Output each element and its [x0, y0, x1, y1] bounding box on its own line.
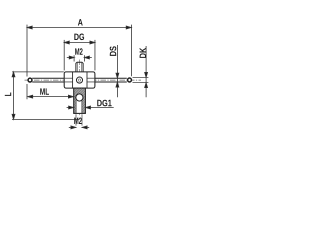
dimension A: line — [27, 26, 131, 29]
dimension L: line — [12, 72, 15, 119]
vertical centerline — [78, 60, 80, 117]
label A — [78, 19, 83, 25]
dimension DG: extension lines — [64, 40, 95, 71]
dimension ML: line — [28, 95, 74, 98]
label M2 bottom — [74, 118, 81, 125]
label DG — [74, 34, 84, 41]
label DS (rotated) — [110, 46, 117, 56]
dimension DK: segments — [145, 46, 148, 97]
right ball — [128, 78, 132, 82]
M2 bottom extension lines (bore) — [76, 114, 82, 125]
L extension lines — [12, 72, 80, 120]
label ML — [40, 88, 49, 94]
horizontal centerline — [25, 79, 142, 81]
ML left extension line — [26, 84, 28, 99]
bore thread lines — [76, 101, 82, 114]
bar left segment — [32, 78, 72, 82]
dimension M2 top: arrows outside — [67, 56, 92, 59]
left ball — [28, 78, 32, 82]
bore column below cross hole — [76, 99, 82, 113]
cross hole circle — [76, 94, 83, 101]
stem thread lines — [77, 62, 81, 72]
lower cylinder outline — [74, 88, 86, 113]
M2 threaded stem — [76, 62, 83, 72]
label L (rotated) — [5, 92, 11, 95]
dimension DS: upper segment — [116, 45, 119, 97]
dimension DG: line — [64, 41, 95, 44]
block inner division lines — [73, 72, 87, 88]
label DG1 — [97, 100, 111, 107]
block body — [64, 72, 95, 88]
bar right segment — [87, 78, 127, 82]
lower cylinder (sectioned, hatched) — [74, 88, 86, 113]
label DK (rotated) — [140, 48, 146, 58]
block center screw circles — [76, 77, 82, 83]
DK extension lines from ball tangents — [133, 78, 149, 83]
bar lines inside block side sections — [65, 78, 95, 82]
label M2 top — [75, 48, 82, 55]
M2 top extension lines — [74, 55, 84, 61]
dimension A: extension lines — [27, 25, 132, 77]
dimension M2 bottom: arrows outside — [69, 126, 89, 129]
dimension DG1: arrows outside — [67, 106, 114, 109]
